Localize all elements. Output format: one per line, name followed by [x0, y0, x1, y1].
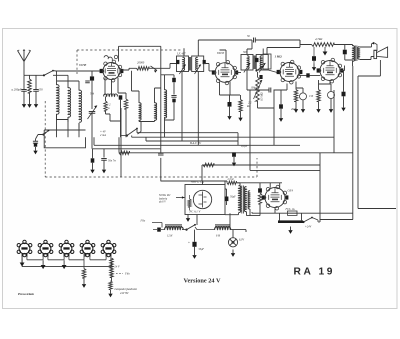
capacitor C17 supply: [158, 153, 164, 155]
wire V2 top cap: [220, 50, 227, 62]
arrow connector mixer: [151, 66, 158, 71]
capacitor C8 AF: [279, 104, 283, 108]
resistor R1 antenna shunt: [28, 79, 32, 93]
ground C9: [302, 106, 304, 110]
resistor R6 V3 cathode: [294, 90, 298, 102]
tube V1 converter: [100, 60, 124, 82]
ground C2: [35, 101, 37, 105]
choke L6: [215, 227, 231, 229]
svg-text:a 200pF: a 200pF: [12, 88, 22, 92]
svg-text:1 MΩ: 1 MΩ: [275, 55, 283, 59]
capacitor C4 osc: [119, 95, 123, 99]
svg-text:+: +: [188, 241, 190, 245]
capacitor C16 filter: [192, 242, 196, 247]
switch S3 battery: [302, 221, 304, 223]
antenna ANT: [18, 50, 31, 76]
wire osc ground drop: [110, 108, 121, 177]
wire V2 plate to IFT2: [235, 72, 241, 74]
ground C5: [229, 113, 231, 117]
wire R15 to R14: [111, 278, 112, 282]
ground filament socket 2: [42, 261, 44, 265]
dashed gang line left drop: [76, 50, 78, 74]
coil R14 lamp dropper: [109, 281, 112, 290]
coil L1 antenna: [57, 85, 60, 114]
svg-text:OZ4: OZ4: [288, 189, 294, 193]
wire C6 to V3 box: [255, 40, 300, 47]
junction blob IFT1 secondary: [203, 60, 206, 64]
terminal A+ blob: [157, 228, 161, 232]
dashed gang line tuning box left: [44, 101, 46, 177]
switch S1c gang: [42, 133, 44, 135]
wire coil commons: [57, 114, 80, 137]
speaker LS: [374, 50, 377, 58]
coil L3 oscillator: [79, 90, 82, 122]
svg-text:24V 3W: 24V 3W: [120, 292, 129, 295]
wire coil feeds: [53, 71, 79, 91]
box vibrator unit: [185, 185, 225, 215]
wire pot bottom link: [258, 90, 275, 145]
ground R6: [295, 106, 297, 110]
svg-text:PC A 1 V: PC A 1 V: [189, 210, 202, 214]
capacitor C18 AVC: [33, 141, 38, 143]
resistor R2 plate: [137, 67, 150, 71]
transformer T2 output: [353, 46, 355, 61]
resistor R9 on bus: [119, 151, 130, 155]
svg-text:2 mA: 2 mA: [100, 134, 106, 137]
capacitor C5 cathode: [228, 102, 232, 107]
capacitor C13 bus: [101, 159, 107, 161]
wire left bus drop: [160, 149, 162, 181]
arrow connector speaker: [372, 42, 375, 45]
IF transformer IFT1: [177, 56, 204, 74]
coil L4 oscillator feedback: [104, 94, 118, 97]
ground filament socket 3: [63, 261, 65, 265]
wire filament bus: [22, 256, 111, 266]
tube socket base 1: [17, 240, 32, 257]
ground LP1: [232, 250, 234, 254]
wire R2 to IFT1: [149, 64, 177, 69]
pilot lamp LP1: [228, 238, 237, 247]
ground C16: [194, 252, 196, 256]
wire screen feed: [300, 40, 312, 45]
svg-text:6,3V: 6,3V: [239, 239, 244, 242]
svg-text:20000: 20000: [137, 61, 145, 65]
wire V4 heater stub: [329, 81, 331, 85]
capacitor C12 tone: [342, 92, 346, 97]
wire switch to V1 grid: [53, 70, 103, 72]
wire bus osc return: [146, 137, 238, 141]
wire osc coil bottoms: [138, 120, 155, 134]
wire field coil return: [358, 60, 396, 209]
svg-text:50n 7w: 50n 7w: [108, 160, 116, 163]
junction blob IFT1 primary: [176, 60, 179, 64]
svg-text:B.A.T. 6V: B.A.T. 6V: [190, 141, 202, 145]
svg-text:150: 150: [309, 95, 314, 98]
svg-text:Versione 24 V: Versione 24 V: [184, 278, 222, 285]
svg-text:Filo: Filo: [124, 273, 130, 276]
wire V1 cathode leads: [105, 78, 118, 96]
wire bus B+ upper: [132, 90, 334, 153]
svg-text:2kΩ: 2kΩ: [291, 108, 296, 111]
resistor R8 V4 cathode: [317, 90, 321, 102]
wire battery to speaker: [320, 213, 353, 222]
ground R8: [318, 106, 320, 110]
wire vibrator top feed: [161, 181, 228, 185]
resistor R15 dropper 24V: [110, 258, 113, 278]
wire bus grid return: [137, 129, 238, 146]
wire V2 cathode network: [220, 82, 241, 96]
junction blob IFT2 bottom: [259, 75, 262, 79]
resistor R18 osc cathode: [104, 101, 107, 111]
ground C8: [280, 115, 282, 119]
switch S2 choke: [185, 229, 187, 231]
capacitor C11 V4 bypass: [328, 92, 335, 99]
wire bus AVC: [94, 137, 300, 145]
tube V6 rectifier: [262, 185, 289, 210]
wire IFT1 bottom drops: [182, 72, 198, 146]
wire bus screen short: [93, 148, 161, 150]
wire IFT1 top leads: [184, 40, 252, 56]
ground C13: [103, 166, 105, 170]
resistor R11 vibrator: [188, 199, 191, 207]
wire bus AF lower: [250, 90, 320, 170]
capacitor C6 top coupling: [254, 38, 256, 43]
arrow R7: [324, 47, 326, 52]
tube socket base 3: [59, 240, 74, 257]
tube V2 IF amplifier: [212, 60, 238, 84]
ground filament socket 1: [21, 259, 23, 263]
trimmer CT1: [90, 76, 94, 80]
wire tuning box outline: [44, 130, 85, 148]
variable capacitor C3a tuning: [89, 112, 96, 114]
resistor R12 primary: [227, 181, 237, 184]
resistor R16 grid box: [263, 54, 271, 69]
svg-text:50μF: 50μF: [230, 196, 236, 199]
wire speaker leads: [360, 44, 374, 60]
junction blob bus: [91, 158, 95, 162]
wire rectifier output: [252, 212, 353, 213]
wire V1 grid cap to tank: [119, 46, 161, 61]
capacitor C9 V3 cathode bypass: [300, 93, 307, 100]
wire IFT1 secondary to V2 grid: [204, 64, 216, 71]
ground R13: [83, 281, 85, 285]
capacitor C1 antenna series: [21, 90, 27, 92]
capacitor C21 coupling blob: [255, 58, 258, 62]
switch S4 tone: [255, 69, 257, 71]
tube V3 first AF: [277, 60, 303, 84]
resistor R7 screen: [312, 43, 335, 47]
capacitor C2 antenna shunt: [33, 90, 39, 92]
ground bus blob: [92, 166, 94, 170]
wire osc tank feed: [161, 46, 174, 149]
grid cap V1: [104, 56, 112, 61]
tube socket base 4: [80, 240, 95, 257]
dashed gang line bottom: [45, 176, 257, 178]
wire detector line: [247, 70, 287, 90]
wire R13 drop: [83, 260, 85, 269]
capacitor C23 plate bypass: [343, 50, 347, 55]
svg-text:6TD5: 6TD5: [217, 51, 225, 55]
resistor R10 bus: [203, 163, 214, 167]
svg-text:0,5 MΩ: 0,5 MΩ: [261, 92, 264, 101]
ground C14: [233, 159, 235, 163]
switch S1b second gang: [126, 134, 128, 136]
IF transformer IFT2: [241, 55, 268, 73]
svg-text:da 6 V: da 6 V: [159, 201, 166, 204]
capacitor C10 screen bypass: [312, 56, 316, 61]
tube socket base 5: [101, 240, 116, 257]
resistor R5 volume pot: [256, 77, 260, 101]
wire V6 cathode out: [247, 208, 276, 216]
ground vibrator box: [187, 215, 189, 219]
coil L2 RF: [68, 88, 71, 117]
wire V4 plate: [344, 66, 345, 71]
svg-text:FUS. 1A: FUS. 1A: [285, 208, 295, 211]
svg-text:6TH8: 6TH8: [79, 63, 87, 67]
svg-text:Presa telaio: Presa telaio: [18, 292, 34, 296]
ground antenna cap: [23, 101, 25, 105]
ground C18: [35, 147, 37, 151]
capacitor C20 padder: [171, 96, 176, 98]
coil L9 oscillator plate: [155, 103, 157, 121]
capacitor C14 bus mid: [232, 152, 236, 156]
svg-text:I.F. 467: I.F. 467: [176, 53, 186, 56]
capacitor C19 padder: [172, 78, 176, 82]
wire V3 plate coupling: [299, 74, 320, 76]
dashed gang line top: [77, 49, 182, 51]
svg-text:24 V: 24 V: [115, 266, 120, 269]
wire S1c to AVC cap: [36, 135, 44, 142]
capacitor C15 buffer: [225, 197, 229, 202]
tube V5 vibrator: [193, 190, 211, 208]
switch S1a wave band: [43, 74, 45, 76]
ground R1: [29, 101, 31, 105]
svg-text:Lampada Quadrante: Lampada Quadrante: [114, 288, 138, 291]
wire bus detector out: [119, 137, 353, 153]
resistor R13 filament: [82, 269, 86, 279]
resistor R17 surge: [258, 193, 261, 204]
wire filament jumpers: [27, 254, 111, 260]
coil L8 oscillator grid: [139, 103, 141, 121]
wire IFT2 to V3: [268, 70, 277, 73]
svg-text:RA 19: RA 19: [294, 267, 336, 278]
wire bus drops: [93, 149, 105, 166]
ground R14: [110, 290, 112, 294]
wire V1 plate to R2: [122, 68, 137, 70]
ground R4: [240, 114, 242, 118]
wire IFT2 top leads: [247, 40, 263, 55]
svg-text:2,5 Ω: 2,5 Ω: [228, 178, 234, 181]
capacitor C22 buffer2: [258, 188, 262, 192]
ground C11: [330, 106, 332, 110]
ground C12: [343, 104, 345, 108]
wire rectifier plate bus: [237, 183, 283, 188]
tube V4 output: [317, 58, 344, 83]
resistor R4 cathode: [239, 100, 243, 112]
wire choke to lamp: [197, 213, 246, 238]
fuse F1: [288, 211, 298, 215]
wire output return: [320, 66, 353, 220]
wire vertical x320: [319, 153, 321, 213]
wire antenna to switch: [24, 74, 44, 76]
resistor R3 osc grid: [124, 99, 128, 109]
battery bar BAT: [278, 220, 303, 223]
capacitor C7 detector series: [269, 88, 271, 93]
ground battery: [290, 227, 292, 231]
dashed gang line right rise: [256, 158, 258, 177]
choke L5: [165, 227, 183, 229]
svg-text:+24V: +24V: [305, 226, 312, 229]
svg-text:Filo: Filo: [140, 220, 146, 223]
svg-text:250: 250: [39, 89, 44, 92]
svg-text:0,1μF: 0,1μF: [241, 145, 248, 148]
tube socket base 2: [38, 240, 53, 257]
coil L7 oscillator tank: [165, 90, 167, 118]
wire bus AF return: [202, 165, 320, 181]
svg-text:50μF: 50μF: [199, 248, 205, 251]
transformer T1 power: [239, 186, 241, 213]
